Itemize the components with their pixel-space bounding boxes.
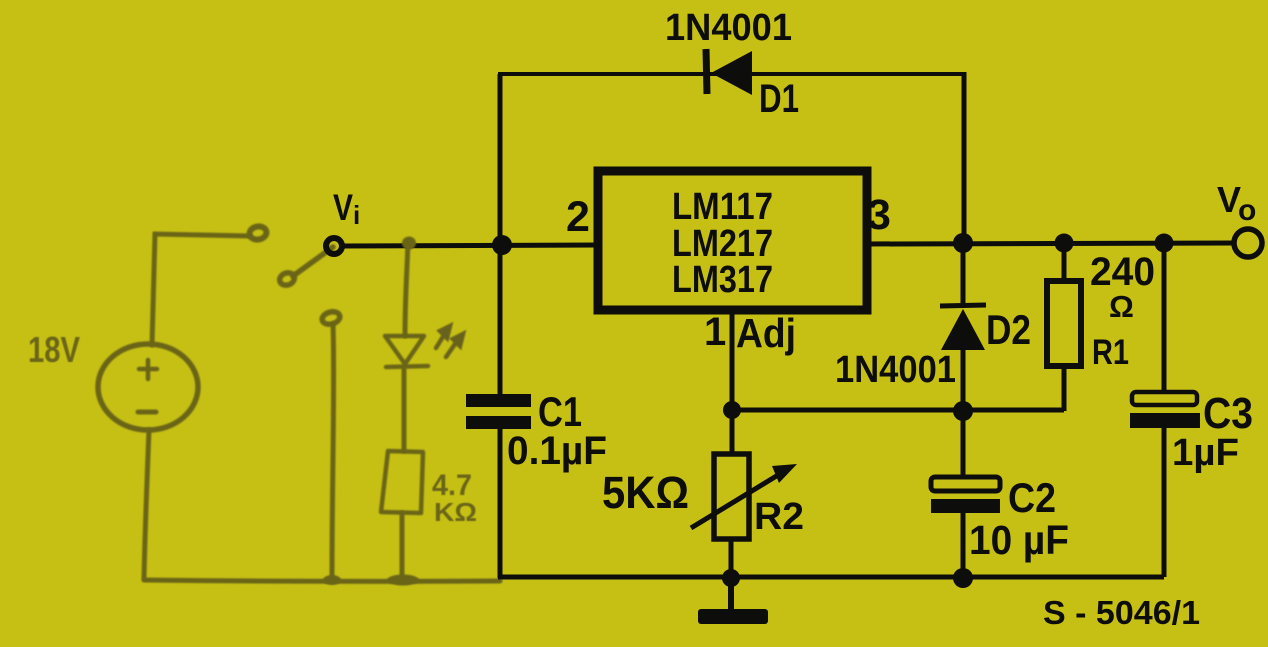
svg-text:R1: R1 xyxy=(1092,333,1129,372)
svg-text:Ω: Ω xyxy=(1109,289,1134,324)
svg-text:V: V xyxy=(333,187,353,228)
svg-text:1N4001: 1N4001 xyxy=(665,7,792,49)
svg-text:C2: C2 xyxy=(1008,474,1056,521)
junction dot C2 bottom xyxy=(953,568,973,588)
wire D2 top lead xyxy=(961,243,966,306)
LED emission arrows xyxy=(436,326,463,357)
diode D1 xyxy=(711,51,752,95)
wire pin3 to output Vo xyxy=(867,243,1234,244)
junction dot Adj node xyxy=(723,401,741,419)
LED indicator diode xyxy=(385,336,428,367)
svg-text:C3: C3 xyxy=(1203,389,1253,438)
wire Adj rail to D2/R1 xyxy=(732,408,1064,413)
svg-text:C1: C1 xyxy=(538,388,582,435)
resistor R1 xyxy=(1047,243,1081,411)
wire: bottom black rail xyxy=(498,575,1164,580)
junction blob on gray rail xyxy=(323,575,341,585)
svg-text:10 µF: 10 µF xyxy=(969,517,1069,563)
svg-text:5KΩ: 5KΩ xyxy=(602,467,689,518)
terminal: unused switch throw loop xyxy=(321,310,341,326)
svg-text:S - 5046/1: S - 5046/1 xyxy=(1043,594,1200,631)
junction dot C3 top xyxy=(1155,234,1174,253)
wire D2 bottom lead xyxy=(961,350,966,411)
junction dot D2 bottom node xyxy=(953,401,973,421)
svg-text:LM117: LM117 xyxy=(672,186,773,228)
svg-text:3: 3 xyxy=(867,191,891,239)
wire Vi to node A xyxy=(343,245,598,246)
node Vi input terminal xyxy=(326,238,342,254)
capacitor C2 xyxy=(931,411,1000,578)
ground xyxy=(698,578,768,624)
wire resistor to bottom rail xyxy=(400,513,405,578)
svg-text:1: 1 xyxy=(704,310,726,354)
wire battery negative down to bottom rail xyxy=(144,430,149,578)
svg-text:KΩ: KΩ xyxy=(434,497,477,527)
switch wiper contact blob on Vi wire xyxy=(402,237,416,250)
svg-text:D2: D2 xyxy=(986,306,1031,353)
svg-text:1µF: 1µF xyxy=(1172,432,1239,474)
junction node A xyxy=(492,235,512,255)
switch lever SW1 xyxy=(293,247,333,276)
junction dot node B (D2 top) xyxy=(953,233,973,253)
svg-text:i: i xyxy=(353,200,360,230)
wire LED cathode to resistor xyxy=(402,369,407,451)
svg-text:240: 240 xyxy=(1090,250,1155,294)
wire: top branch right vertical xyxy=(962,72,967,243)
svg-text:0.1µF: 0.1µF xyxy=(507,429,607,473)
label Vo xyxy=(1217,179,1256,227)
svg-text:LM317: LM317 xyxy=(672,259,773,301)
junction dot R1 top xyxy=(1055,234,1074,253)
svg-text:D1: D1 xyxy=(759,77,799,121)
wire: D1 branch left vertical xyxy=(498,74,503,245)
diode D2 xyxy=(941,309,985,350)
svg-text:18V: 18V xyxy=(28,329,80,370)
junction dot R2 bottom xyxy=(722,569,740,587)
wire: top D1 branch horizontal xyxy=(498,72,964,76)
capacitor C1 xyxy=(466,245,531,578)
svg-text:Adj: Adj xyxy=(736,310,796,356)
battery V1 18V xyxy=(98,344,198,430)
junction blob resistor to rail xyxy=(387,575,419,586)
diode D2 cathode bar xyxy=(940,305,986,306)
gray tap wire from Vi node down to LED xyxy=(405,243,408,336)
svg-text:o: o xyxy=(1238,194,1256,227)
IC U1 LM117/LM217/LM317 xyxy=(598,171,867,310)
potentiometer R2 xyxy=(691,410,797,578)
wire: unused switch throw to bottom rail xyxy=(332,324,334,578)
capacitor C3 xyxy=(1130,243,1200,577)
wire pin1 Adj vertical xyxy=(730,310,735,410)
terminal: switch input open contact xyxy=(249,225,268,241)
terminal: switch lever end loop xyxy=(278,271,296,287)
wire battery positive to switch contact xyxy=(152,234,250,345)
terminal Vo xyxy=(1234,229,1262,257)
label Vi xyxy=(333,187,360,230)
svg-text:1N4001: 1N4001 xyxy=(835,349,956,391)
resistor 4.7k (hand drawn) xyxy=(381,451,423,513)
wire: gray bottom return rail xyxy=(144,580,500,581)
svg-text:2: 2 xyxy=(566,193,590,241)
svg-text:R2: R2 xyxy=(754,496,804,538)
diode D1 cathode bar xyxy=(706,49,707,94)
